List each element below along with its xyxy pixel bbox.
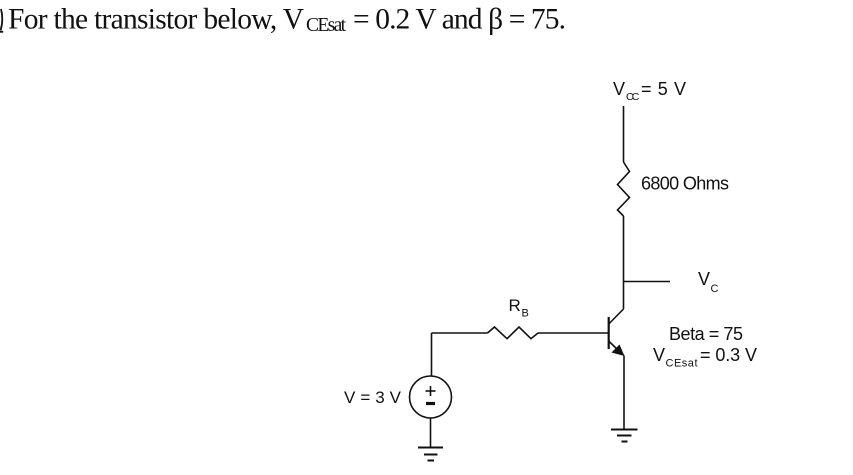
svg-text:= 0.3 V: = 0.3 V <box>700 345 757 365</box>
svg-text:V: V <box>653 345 665 365</box>
wire emitter to ground <box>623 356 625 430</box>
resistor RB (base resistor) <box>488 327 539 339</box>
svg-text:R: R <box>509 296 521 315</box>
wire source to base resistor <box>432 332 488 334</box>
svg-text:CEsat: CEsat <box>306 15 347 36</box>
ground (source) <box>418 448 443 461</box>
svg-text:B: B <box>522 308 529 320</box>
svg-text:C: C <box>711 283 719 295</box>
wire base resistor to base <box>538 332 608 334</box>
svg-text:= 5 V: = 5 V <box>641 79 686 99</box>
svg-text:For the transistor below, V: For the transistor below, V <box>8 4 304 36</box>
wire Vcc to resistor <box>623 106 625 162</box>
svg-text:V: V <box>613 79 625 99</box>
wire resistor to collector <box>623 216 625 309</box>
svg-text:V: V <box>698 269 710 289</box>
wire source top lead <box>431 333 433 376</box>
voltage source V1 (V = 3 V) <box>410 376 452 418</box>
ground (emitter) <box>611 430 638 442</box>
transistor Q1 (NPN) <box>609 309 625 356</box>
wire Vc stub <box>624 281 671 283</box>
wire source bottom lead <box>430 418 432 447</box>
svg-text:V = 3 V: V = 3 V <box>344 388 402 407</box>
svg-text:C: C <box>632 91 640 103</box>
svg-text:= 0.2 V and β = 75.: = 0.2 V and β = 75. <box>353 4 566 36</box>
svg-text:6800 Ohms: 6800 Ohms <box>641 174 729 194</box>
cut-off question-number fragment at left edge <box>0 9 3 32</box>
svg-text:CEsat: CEsat <box>666 358 698 370</box>
resistor 6800 Ohms (collector resistor) <box>618 162 630 216</box>
svg-text:Beta = 75: Beta = 75 <box>669 324 743 344</box>
